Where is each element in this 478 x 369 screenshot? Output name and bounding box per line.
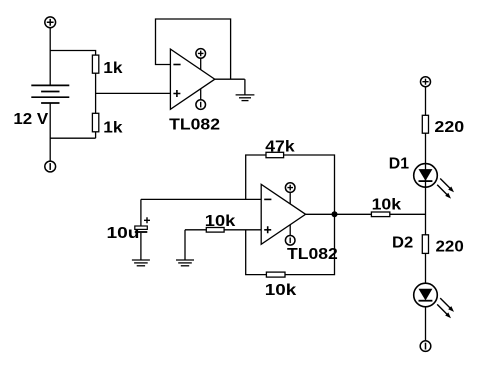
svg-text:10k: 10k [372,197,402,214]
wire [425,87,427,116]
feedback wire U1 output to inverting input [156,19,231,79]
svg-text:TL082: TL082 [169,117,220,134]
ground [132,260,150,266]
battery negative terminal [45,161,56,172]
wire U1 output [215,78,245,80]
resistor R5 10k [266,272,285,277]
node wire to op-amp U1 + [96,92,171,94]
op-amp U1 TL082 [170,49,214,109]
svg-text:TL082: TL082 [287,246,338,263]
feedback wire to 47k [246,155,266,199]
svg-text:10k: 10k [265,282,297,299]
wire [50,137,95,139]
resistor R1 1k [92,55,98,73]
wire 10k to output node [285,214,335,274]
op-amp U2 V- pin [285,225,295,245]
wire R6 to LED column [390,213,426,215]
svg-text:220: 220 [434,119,464,136]
resistor R4 47k [266,152,284,157]
wire ground to R3 [185,229,206,231]
wire [49,28,51,86]
wire [425,253,427,283]
wire 47k to output node [284,155,335,214]
svg-text:12 V: 12 V [13,111,48,128]
LED D2 [414,283,454,318]
svg-text:220: 220 [436,239,464,256]
op-amp U1 V+ pin [196,49,206,70]
op-amp U2 V+ pin [285,183,295,204]
resistor R2 1k [92,113,98,132]
ground [176,260,194,266]
V- terminal right [420,341,431,352]
ground [236,79,255,100]
wire [95,132,97,138]
LED D1 [414,164,454,199]
svg-text:1k: 1k [103,60,122,77]
op-amp U1 V- pin [196,89,206,110]
svg-text:1k: 1k [103,119,122,136]
junction node [332,211,338,217]
wire [49,103,51,161]
battery B1 12V [31,85,69,103]
wire R3 to U2 + input [224,229,261,231]
wire [425,307,427,341]
wire [95,73,97,113]
feedback wire to bottom 10k [246,230,267,275]
wire [50,51,95,56]
svg-text:D1: D1 [389,155,409,172]
capacitor C1 10u [135,199,150,260]
svg-text:D2: D2 [392,234,413,251]
V+ terminal right [421,77,431,87]
wire C1 to U2 inverting input [141,198,261,200]
wire [184,230,186,260]
svg-text:10u: 10u [107,225,140,242]
resistor R8 220 [422,235,428,254]
battery positive terminal [45,17,56,28]
resistor R7 220 [422,115,428,133]
wire U2 output [306,213,372,215]
op-amp U2 TL082 [261,184,305,244]
svg-text:10k: 10k [205,213,236,230]
resistor R3 10k [206,228,224,233]
resistor R6 10k [371,212,389,217]
svg-text:47k: 47k [265,138,294,155]
wire [425,133,427,235]
